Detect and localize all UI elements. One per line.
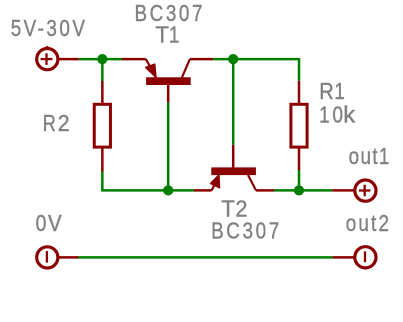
out1 pin stub <box>332 189 355 192</box>
resistor R1 top stub <box>298 81 301 105</box>
svg-text:1: 1 <box>169 23 179 48</box>
svg-text:0: 0 <box>333 103 343 128</box>
node A junction <box>97 54 107 64</box>
wire R2 to node D <box>102 172 168 191</box>
wire 0V rail <box>79 256 333 259</box>
wire node C to out1 <box>299 189 332 192</box>
resistor R2 body <box>94 104 110 147</box>
svg-text:R: R <box>319 77 333 104</box>
svg-text:out2: out2 <box>346 211 389 236</box>
svg-text:0: 0 <box>36 211 47 236</box>
svg-text:5V-30V: 5V-30V <box>11 16 85 41</box>
svg-text:T: T <box>155 21 169 47</box>
node D junction <box>163 185 173 195</box>
0V terminal left <box>37 247 58 268</box>
transistor T2 emitter stub <box>194 189 212 192</box>
wire node B to R1 corner <box>233 59 299 81</box>
svg-text:R: R <box>43 111 56 137</box>
transistor T1 collector stub <box>190 58 213 61</box>
resistor R1 bottom stub <box>298 147 301 170</box>
wire T2 collector to node C <box>274 189 299 192</box>
transistor T1 base stub <box>167 85 170 103</box>
out1 terminal <box>355 180 376 201</box>
transistor T1 collector diagonal <box>182 59 190 78</box>
wire node B to T2 base <box>232 59 235 145</box>
node C junction <box>294 185 304 195</box>
node B junction <box>228 54 238 64</box>
out2 terminal <box>355 247 376 268</box>
wire supply to node A <box>79 58 102 61</box>
transistor T1 emitter stub <box>122 58 146 61</box>
svg-text:k: k <box>343 102 355 127</box>
svg-text:1: 1 <box>334 79 344 104</box>
wire T1 collector to node B <box>213 58 233 61</box>
svg-text:BC307: BC307 <box>211 219 279 244</box>
transistor T2 collector stub <box>256 189 274 192</box>
wire node D to T2 emitter <box>168 189 194 192</box>
transistor T2 collector diagonal <box>248 175 256 190</box>
transistor T2 emitter diagonal <box>212 175 219 190</box>
transistor T2 base bar <box>211 167 256 175</box>
transistor T1 emitter arrow <box>146 64 156 77</box>
supply terminal +5V-30V <box>37 46 58 70</box>
transistor T1 base bar <box>146 77 191 85</box>
svg-text:T: T <box>221 195 235 221</box>
wire R1 to node C <box>298 170 301 190</box>
svg-text:1: 1 <box>319 103 329 128</box>
transistor T2 base stub <box>232 145 235 168</box>
resistor R2 bottom stub <box>101 147 104 171</box>
out2 pin stub <box>333 256 355 259</box>
transistor T2 emitter arrow <box>211 175 220 187</box>
wire node A to R2 <box>101 59 104 81</box>
wire T1 base to node D <box>167 103 170 191</box>
svg-text:2: 2 <box>58 110 70 136</box>
svg-text:out1: out1 <box>349 144 390 169</box>
pin stub supply <box>58 58 79 61</box>
transistor T1 emitter diagonal <box>146 59 156 77</box>
resistor R2 top stub <box>101 81 104 104</box>
0V terminal pin stub <box>59 256 79 259</box>
wire node A to T1 emitter <box>102 58 122 61</box>
resistor R1 body <box>291 104 307 147</box>
svg-text:2: 2 <box>235 196 247 222</box>
svg-text:V: V <box>48 210 62 236</box>
